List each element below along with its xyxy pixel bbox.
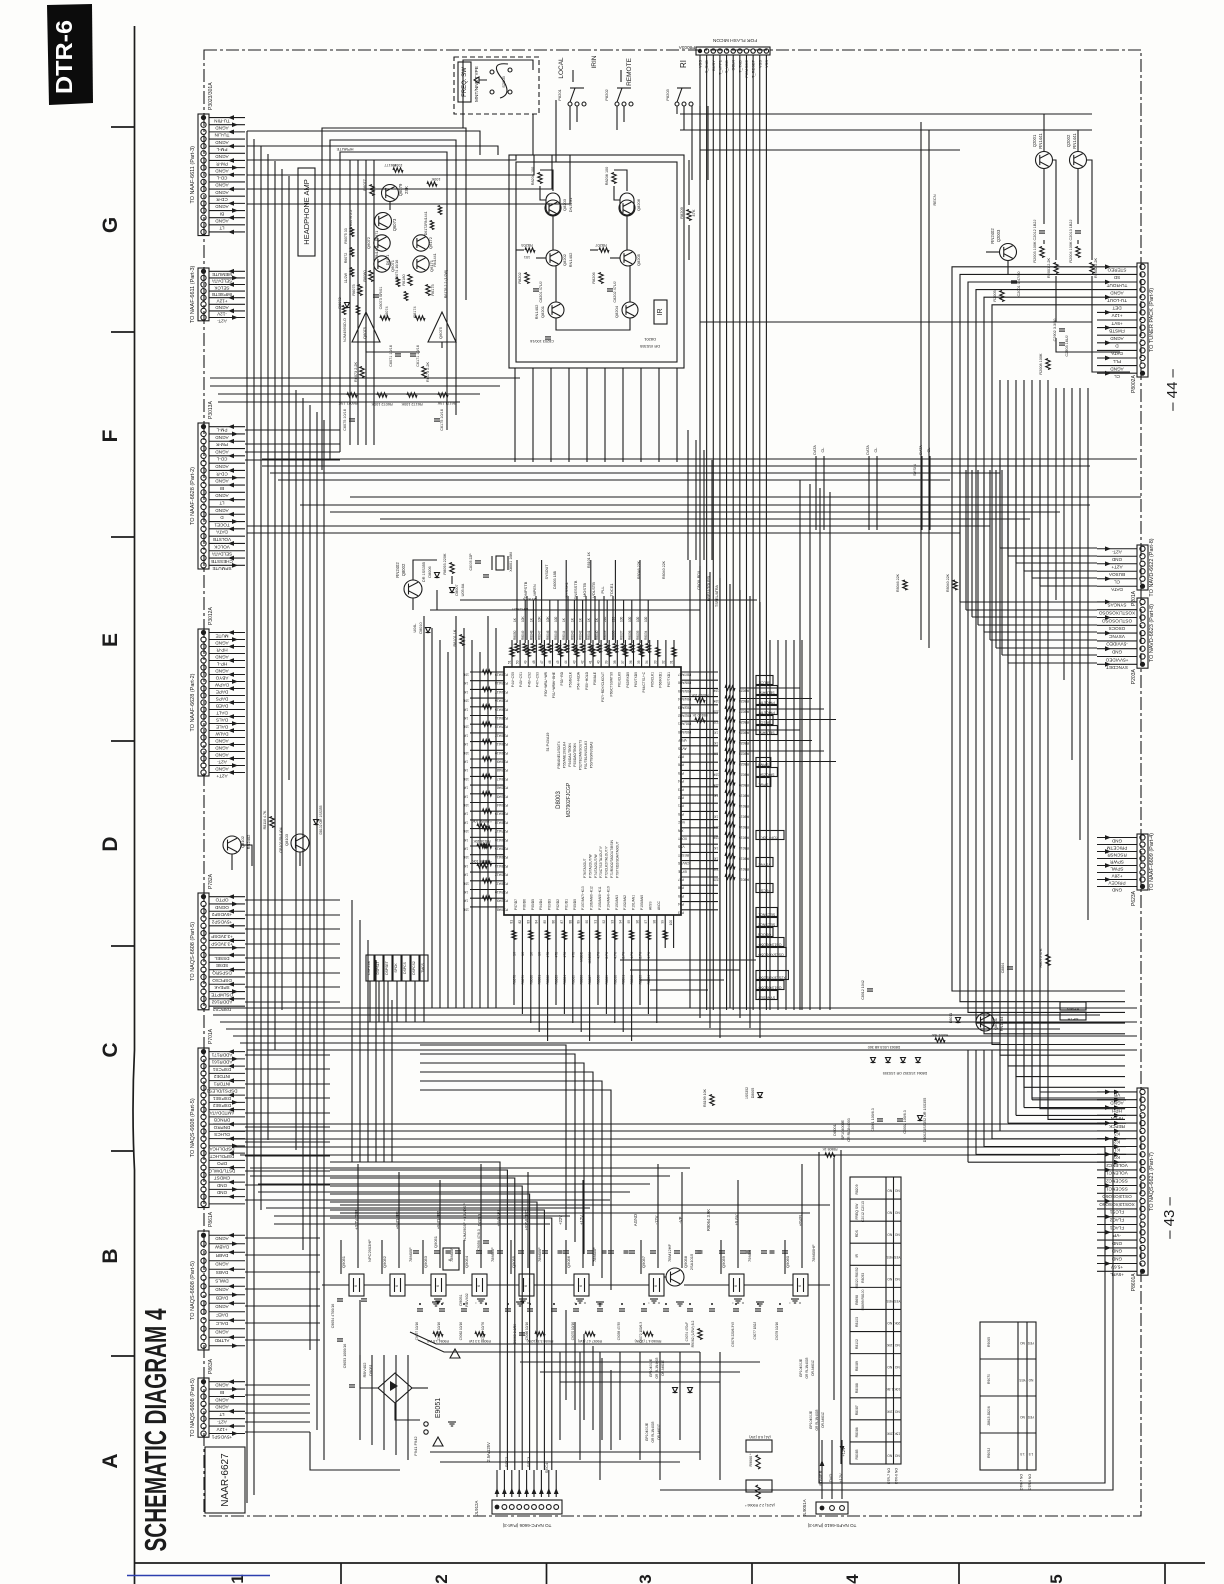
svg-text:DATA: DATA [866, 445, 870, 455]
pin 13 of P3013A [201, 512, 206, 517]
capacitor C8012 1042 [867, 988, 873, 990]
pin 6 of P782A [201, 931, 206, 936]
svg-text:OR AM01Z: OR AM01Z [821, 1412, 825, 1428]
wire pin stub [1097, 1216, 1137, 1218]
wire IR output vertical [676, 368, 678, 462]
svg-text:P104/AN4/~K10: P104/AN4/~K10 [606, 886, 610, 910]
svg-text:DSPCS2: DSPCS2 [412, 961, 416, 975]
svg-text:49: 49 [524, 660, 528, 664]
svg-text:2SK: 2SK [404, 186, 409, 194]
diode bridge rectifier D9051 [378, 1373, 412, 1403]
svg-text:CD-L: CD-L [216, 457, 227, 462]
svg-text:NO: NO [894, 1409, 899, 1413]
wire staircase into P8601A [1000, 1130, 1126, 1132]
svg-text:SECSNC1: SECSNC1 [758, 913, 775, 917]
svg-text:R8081: R8081 [538, 975, 542, 985]
wire IR output vertical [604, 368, 606, 462]
svg-text:RN1441: RN1441 [424, 211, 428, 224]
wire pin stub [1097, 273, 1137, 275]
svg-text:10K: 10K [462, 803, 469, 807]
net label SECSNC2 [756, 918, 777, 927]
svg-text:D8010: D8010 [419, 622, 423, 633]
svg-text:AVCC: AVCC [657, 900, 661, 910]
connector P8601A TO NAQS-6621 (Part-7) [1137, 1088, 1148, 1275]
mcu left pin [470, 880, 504, 882]
svg-text:VOLENC1: VOLENC1 [1106, 1171, 1128, 1176]
wire pin stub [1097, 1114, 1137, 1116]
svg-text:U05.6A: U05.6A [461, 583, 465, 596]
pin 14 of P8002A [1140, 363, 1145, 368]
pin 2 of P8003A [704, 49, 708, 53]
svg-text:Q9053: Q9053 [423, 1255, 428, 1268]
svg-text:R9060 *: R9060 * [749, 1453, 753, 1467]
svg-text:P33/A11: P33/A11 [495, 881, 508, 885]
svg-text:R8091: R8091 [622, 975, 626, 985]
svg-text:AGND: AGND [215, 766, 229, 771]
svg-text:DABS: DABS [216, 1270, 229, 1275]
svg-text:R8035: R8035 [636, 630, 640, 640]
svg-text:AGND: AGND [215, 1262, 229, 1267]
svg-text:PM-R: PM-R [215, 161, 227, 166]
svg-text:P84/AN4: P84/AN4 [678, 697, 691, 701]
mcu right pin [681, 761, 718, 763]
svg-text:10K: 10K [712, 783, 719, 787]
pin 17 of P3013A [201, 541, 206, 546]
wire pin stub [209, 716, 245, 718]
svg-text:Q6072: Q6072 [366, 236, 371, 249]
pin 2 of P623A [1140, 842, 1145, 847]
svg-text:100: 100 [644, 616, 648, 622]
wire pin stub [1097, 617, 1137, 619]
svg-text:YES: YES [887, 1255, 893, 1259]
mcu right pin [681, 868, 718, 870]
svg-text:RESET: RESET [678, 853, 689, 857]
wire flash bus vertical [719, 55, 721, 1010]
wire pin stub [1097, 1239, 1137, 1241]
pin 11 of P8003A [764, 49, 768, 53]
wire pin stub [1097, 570, 1137, 572]
wire pin stub [209, 674, 245, 676]
pin 8 of [201, 315, 206, 320]
capacitor row power out [417, 1308, 423, 1310]
mcu bottom pin [530, 915, 532, 948]
mcu right pin [681, 728, 718, 730]
svg-text:40: 40 [597, 660, 601, 664]
pin 4 of P8601A [1140, 1113, 1145, 1118]
svg-text:R8101 1K: R8101 1K [587, 551, 591, 568]
wire pin stub [209, 983, 245, 985]
wire q2001 q2002 bias [1043, 114, 1045, 151]
svg-text:10K: 10K [521, 615, 525, 622]
svg-text:R8605 1K: R8605 1K [822, 1147, 838, 1151]
frame tick bottom [958, 1563, 960, 1584]
wire left vertical bundle [260, 146, 262, 1210]
svg-text:DRNCB: DRNCB [214, 1118, 230, 1123]
svg-text:RN1441: RN1441 [1072, 133, 1077, 149]
svg-text:P105/AN5/~K11: P105/AN5/~K11 [598, 886, 602, 910]
svg-text:89: 89 [577, 920, 581, 924]
pin 13 of P782A [201, 982, 206, 987]
wire pin stub [1097, 311, 1137, 313]
wire vertical right of mcu [689, 560, 691, 1008]
wire pin stub [209, 765, 245, 767]
svg-text:+5VDSP1: +5VDSP1 [211, 1434, 232, 1439]
svg-text:X2S13/XOSO5O: X2S13/XOSO5O [759, 976, 786, 980]
svg-text:P71: P71 [678, 804, 684, 808]
wire pin stub [209, 521, 245, 523]
wire left vertical bundle [309, 405, 311, 1350]
wire pin stub [1097, 886, 1137, 888]
svg-text:TU-ROUT: TU-ROUT [1106, 283, 1127, 288]
wire sec feed [526, 1470, 528, 1497]
svg-text:REMOTE: REMOTE [626, 57, 633, 85]
svg-text:RN2402: RN2402 [990, 228, 995, 244]
svg-text:P02/D2: P02/D2 [556, 899, 560, 910]
svg-text:DSSEL: DSSEL [214, 956, 230, 961]
pin 6 of P8002A [1140, 302, 1145, 307]
pin 14 of P8601A [1140, 1191, 1145, 1196]
svg-text:C9064 10/76: C9064 10/76 [481, 1322, 485, 1340]
svg-text:VOLSTB: VOLSTB [213, 537, 231, 542]
svg-text:INTDR1: INTDR1 [213, 1081, 230, 1086]
resistor R6075 33 [358, 285, 362, 296]
svg-text:AGND: AGND [215, 1397, 229, 1402]
svg-text:P06/D6: P06/D6 [522, 899, 526, 910]
svg-text:DSPSLT: DSPSLT [376, 962, 380, 975]
capacitor C9056 47/6.3 [483, 1240, 489, 1242]
pin 2 of P8002A [1140, 272, 1145, 277]
svg-text:39: 39 [605, 660, 609, 664]
svg-text:P72/CLK2/TA1OUT/Y: P72/CLK2/TA1OUT/Y [605, 845, 609, 878]
capacitor C8001 100/6.3 [877, 1118, 883, 1120]
svg-text:SSCENC2: SSCENC2 [1106, 1179, 1128, 1184]
svg-text:P102/AN2: P102/AN2 [623, 895, 627, 910]
wire pin stub [209, 167, 245, 169]
pin 5 of P782A [201, 923, 206, 928]
svg-text:10K: 10K [462, 777, 469, 781]
pin 3 of JL912A [509, 1505, 514, 1510]
svg-text:+5VDSP2: +5VDSP2 [211, 912, 232, 917]
svg-text:R8084: R8084 [563, 975, 567, 985]
svg-text:Q2001: Q2001 [1032, 134, 1037, 147]
wire pin stub [1097, 1247, 1137, 1249]
svg-text:OR RL1N4003: OR RL1N4003 [815, 1409, 819, 1430]
voltage regulator Q9060 [793, 1274, 808, 1296]
transistor Q8203 DN3131 [545, 200, 561, 216]
pin 3 of P8003A [711, 49, 715, 53]
svg-text:D8102 OR 1SS355: D8102 OR 1SS355 [319, 805, 323, 834]
pin 1 of P201A [1140, 546, 1145, 551]
wire pin stub [209, 542, 245, 544]
svg-text:6: 6 [436, 1285, 440, 1287]
svg-text:XOS13/XOSO5O: XOS13/XOSO5O [1099, 1202, 1135, 1207]
svg-text:TU-LIN: TU-LIN [215, 133, 230, 138]
svg-text:MUTE: MUTE [215, 633, 228, 638]
svg-text:10K: 10K [894, 1387, 901, 1391]
net SYSIN double vertical [920, 122, 922, 640]
pin 2 of JL9051A [830, 1506, 835, 1511]
pin 11 of P3023/301A [201, 186, 206, 191]
transistor Q6171 [413, 256, 429, 272]
svg-text:R8086: R8086 [580, 975, 584, 985]
wire pin stub [209, 1396, 245, 1398]
wire pin stub [209, 1051, 245, 1053]
svg-text:PM-L: PM-L [216, 427, 227, 432]
svg-text:YES: YES [887, 1299, 893, 1303]
svg-text:P701A: P701A [208, 1028, 214, 1044]
resistor R6072 100K [377, 393, 387, 397]
svg-text:RN2402: RN2402 [395, 562, 400, 578]
svg-text:C9078 10/16: C9078 10/16 [775, 1322, 779, 1340]
wire pin stub [209, 723, 245, 725]
svg-text:A2T+: A2T+ [1111, 565, 1122, 570]
wire vertical right of mcu [759, 602, 761, 1038]
pin 14 of P3023/301A [201, 208, 206, 213]
mcu right pin [681, 810, 718, 812]
wire regulator inputs [340, 1240, 342, 1274]
svg-text:44: 44 [564, 660, 568, 664]
pin 6 of P863A [201, 1416, 206, 1421]
diagonal bus merge wires [418, 1340, 700, 1352]
svg-text:84: 84 [535, 920, 539, 924]
wire pin stub [209, 217, 245, 219]
wire pin stub [209, 1319, 245, 1321]
wire pin stub [209, 513, 245, 515]
svg-text:D8001: D8001 [832, 1123, 837, 1136]
resistor R2005 [1000, 291, 1004, 302]
svg-text:TU-LOUT: TU-LOUT [1107, 298, 1127, 303]
svg-text:IR: IR [855, 1254, 859, 1258]
svg-text:GND: GND [1111, 838, 1122, 843]
pin 14 of P861A [201, 1343, 206, 1348]
svg-text:P07/D7: P07/D7 [514, 899, 518, 910]
resistor R6073 2.2K [360, 367, 364, 378]
pin 4 of P861A [201, 1258, 206, 1263]
wire pin stub [209, 639, 245, 641]
pin 12 of P782A [201, 974, 206, 979]
svg-text:Q8201: Q8201 [540, 305, 545, 318]
svg-text:P27/A17: P27/A17 [495, 829, 508, 833]
svg-text:GND: GND [216, 1183, 227, 1188]
mcu left pin [470, 749, 504, 751]
wire pin stub [209, 426, 245, 428]
wire vertical center-right [799, 480, 801, 1010]
svg-text:AGND: AGND [215, 449, 229, 454]
svg-text:P53/DA0/TB0IN: P53/DA0/TB0IN [573, 743, 577, 767]
svg-text:DET: DET [1112, 306, 1121, 311]
svg-text:-5VVIDEO: -5VVIDEO [1106, 642, 1128, 647]
wire pin stub [209, 1410, 245, 1412]
voltage regulator Q9053 [431, 1274, 446, 1296]
wire pin stub [1097, 372, 1137, 374]
svg-text:+5VVIDEO: +5VVIDEO [1105, 657, 1128, 662]
svg-text:R8046: R8046 [546, 630, 550, 640]
svg-text:P32/A10: P32/A10 [495, 890, 508, 894]
svg-text:R8082: R8082 [546, 975, 550, 985]
wire pin stub [1097, 1270, 1137, 1272]
wire pin stub [1097, 609, 1137, 611]
svg-text:DALE: DALE [216, 724, 228, 729]
svg-text:C2012 C2013: C2012 C2013 [861, 1201, 865, 1222]
horizontal stubs to R2 R3 [1000, 547, 1097, 549]
svg-text:DALC: DALC [215, 1321, 228, 1326]
svg-text:P83/AN3: P83/AN3 [678, 705, 691, 709]
wire R1 net [952, 380, 1125, 991]
transistor Q8202 RN1402 [546, 250, 562, 266]
pin 7 of P3012A [201, 672, 206, 677]
pin 1 of [201, 269, 206, 274]
pin 1 of P3013A [201, 424, 206, 429]
svg-text:VSS: VSS [677, 845, 684, 849]
wire pin stub [1097, 555, 1137, 557]
mcu right pin [681, 892, 718, 894]
resistor R6174 5.1K [415, 316, 425, 320]
pin 14 of P782A [201, 989, 206, 994]
svg-text:DTR-7 NO: DTR-7 NO [887, 1468, 891, 1484]
svg-text:C2903 16UJ: C2903 16UJ [1065, 335, 1069, 356]
mcu top pin [608, 640, 610, 667]
mcu bottom pin [513, 915, 515, 948]
svg-text:YES: YES [894, 1255, 900, 1259]
svg-text:SDSE: SDSE [216, 963, 229, 968]
pin 15 of P8601A [1140, 1199, 1145, 1204]
svg-text:TO NAQS-6608 (Part-5): TO NAQS-6608 (Part-5) [190, 1261, 196, 1320]
wire pin stub [209, 1294, 245, 1296]
wire IR output vertical [640, 368, 642, 462]
pin 1 of P861A [201, 1233, 206, 1238]
svg-text:83: 83 [526, 920, 530, 924]
svg-text:R9070: R9070 [987, 1374, 991, 1384]
mcu top pin [673, 640, 675, 667]
svg-text:Q6172: Q6172 [428, 236, 433, 249]
wire pin stub [209, 1234, 245, 1236]
mcu left pin [470, 775, 504, 777]
capacitor row power in [413, 1250, 419, 1252]
mcu left pin [470, 732, 504, 734]
diode D8002 1SS352 [918, 1116, 923, 1121]
svg-text:RN1441: RN1441 [1038, 133, 1043, 149]
svg-text:DTR-6: DTR-6 [51, 20, 77, 94]
wire pin stub [1097, 1099, 1137, 1101]
wire pin stub [209, 550, 245, 552]
svg-text:P26/A16: P26/A16 [495, 838, 508, 842]
nested staircase bus to bottom [420, 1045, 566, 1230]
wire pin stub [209, 772, 245, 774]
switch S2003 [496, 64, 508, 98]
resistor R8203 101 [525, 248, 535, 252]
resistor R6071 15K [347, 393, 357, 397]
wire bus horizontal mid [300, 504, 1090, 506]
mcu right pin [681, 704, 718, 706]
pin 3 of P861A [201, 1250, 206, 1255]
power resistor R9066 2.2 1W [756, 1485, 760, 1499]
mcu bottom pin [631, 915, 633, 948]
svg-text:C9053 1000/16: C9053 1000/16 [343, 1344, 347, 1369]
svg-text:NO: NO [894, 1211, 899, 1215]
wire pin stub [1097, 858, 1137, 860]
pin 5 of P701A [201, 1078, 206, 1083]
mcu left pin [470, 862, 504, 864]
net label DSPCS2 [411, 955, 419, 981]
svg-text:ADDR161: ADDR161 [211, 1060, 232, 1065]
svg-text:P64/CTS1/~C: P64/CTS1/~C [642, 671, 646, 692]
svg-text:P3012A: P3012A [208, 607, 214, 625]
wire IR output vertical [532, 368, 534, 462]
svg-text:DTR-6 NO: DTR-6 NO [1028, 1474, 1032, 1490]
regulator interconnect wires [322, 1284, 349, 1286]
pin 1 of P3012A [201, 630, 206, 635]
svg-text:P101/AN1: P101/AN1 [632, 895, 636, 910]
mcu bottom pin [647, 915, 649, 948]
net label OS13/OSO5O [756, 981, 784, 990]
svg-text:48: 48 [532, 660, 536, 664]
pin 12 of P8002A [1140, 348, 1145, 353]
svg-text:R6076 2.2: R6076 2.2 [349, 210, 353, 227]
mcu top pin [657, 640, 659, 667]
svg-text:10K: 10K [462, 725, 469, 729]
transistor Q8001 RN1404 [976, 1013, 994, 1031]
mcu right pin [681, 819, 718, 821]
svg-text:MODE2: MODE2 [588, 952, 592, 964]
pin 16 of P8601A [1140, 1206, 1145, 1211]
svg-text:Q2003: Q2003 [996, 229, 1001, 242]
mcu left pin [470, 767, 504, 769]
svg-text:C8804: C8804 [1001, 963, 1005, 974]
svg-text:AGND: AGND [215, 654, 229, 659]
svg-text:Q8204: Q8204 [614, 305, 619, 318]
model tab DTR-6 [47, 4, 93, 105]
wire power feed [831, 1440, 833, 1499]
svg-text:DR 1SS355: DR 1SS355 [422, 562, 426, 582]
svg-text:R9064 3.9K: R9064 3.9K [706, 1209, 711, 1231]
mcu top pin [616, 640, 618, 667]
pin 9 of P3023/301A [201, 172, 206, 177]
pin 9 of P8601A [1140, 1152, 1145, 1157]
pin 4 of P8003A [718, 49, 722, 53]
wire pin stub [209, 947, 245, 949]
svg-text:AGND: AGND [1110, 336, 1124, 341]
pin 3 of P701A [201, 1064, 206, 1069]
transistor Q8002 RN2402 [404, 580, 422, 598]
IR circuit enclosure [509, 155, 684, 368]
svg-text:NO: NO [894, 1365, 899, 1369]
svg-text:A2T-: A2T- [217, 759, 227, 764]
resistor R8209 47K [687, 210, 691, 221]
wire pin stub [209, 939, 245, 941]
option table 2 [980, 1322, 1036, 1470]
svg-text:CL: CL [1114, 580, 1120, 585]
wire flash bus vertical [706, 55, 708, 1010]
svg-text:DSLMPTE: DSLMPTE [211, 992, 233, 997]
wire bus horizontal top of digital block [278, 479, 950, 481]
connector P623A TO NAAF-6609 (Part-4) [1137, 834, 1148, 890]
wire pin stub [209, 998, 245, 1000]
svg-text:Q9056: Q9056 [566, 1255, 571, 1268]
net label OS13/XOSO5O [756, 948, 786, 957]
mcu left pin [470, 793, 504, 795]
svg-text:Q6079: Q6079 [398, 183, 403, 196]
wire pin stub [209, 469, 245, 471]
svg-text:P86/AN6: P86/AN6 [678, 681, 691, 685]
svg-text:A2T-: A2T- [217, 318, 227, 323]
wire left vertical bundle [246, 131, 248, 1503]
pin 18 of P701A [201, 1172, 206, 1177]
wire sec feed [540, 1470, 542, 1497]
svg-text:P54/DA1/TB0IN: P54/DA1/TB0IN [568, 743, 572, 767]
svg-text:P80/AN0: P80/AN0 [678, 730, 691, 734]
net label SECSNC1 [756, 908, 777, 917]
svg-text:R8049: R8049 [521, 630, 525, 640]
